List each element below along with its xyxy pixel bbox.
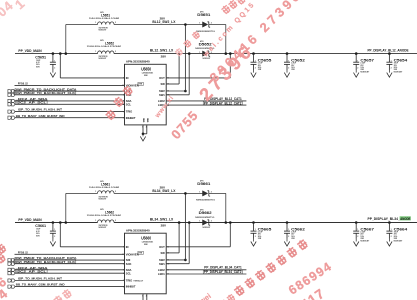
net I2C2_AP_SDA — [15, 100, 125, 102]
capacitor C5662 — [286, 221, 289, 224]
op-amp / driver IC U5660 — [125, 233, 167, 294]
svg-text:PP1V8_S2: PP1V8_S2 — [18, 82, 28, 86]
svg-text:LM3534TA1: LM3534TA1 — [142, 241, 153, 244]
svg-text:NOMOUNT: NOMOUNT — [99, 198, 107, 200]
svg-text:I2C2_AP_SCL: I2C2_AP_SCL — [16, 269, 46, 273]
net I2C2_AP_SCL — [15, 103, 125, 105]
svg-text:NSR0320MW2T1G: NSR0320MW2T1G — [195, 217, 214, 219]
ground under chip — [142, 125, 144, 134]
capacitor C5661 — [52, 221, 55, 224]
svg-text:1: 1 — [199, 23, 200, 25]
wire BL12_SW2_LX — [66, 24, 98, 26]
net PP1V8_S2 — [15, 84, 125, 86]
svg-text:NOMOUNT: NOMOUNT — [99, 58, 107, 60]
svg-text:15UH-20%-0.9A-0.575OHM: 15UH-20%-0.9A-0.575OHM — [87, 45, 121, 48]
wire SW2 riser — [166, 259, 185, 261]
wire to IN pin — [59, 221, 62, 224]
svg-text:L5661: L5661 — [101, 183, 110, 187]
svg-text:GND: GND — [147, 117, 149, 122]
svg-text:28V: 28V — [161, 54, 167, 58]
svg-text:NSR0320MW2T1G: NSR0320MW2T1G — [196, 200, 215, 202]
svg-text:2: 2 — [211, 221, 212, 223]
wire SW riser — [166, 83, 179, 85]
svg-text:2: 2 — [115, 220, 116, 222]
svg-text:SDA: SDA — [126, 268, 132, 272]
svg-text:NOMOUNT: NOMOUNT — [360, 71, 370, 73]
svg-text:SCL: SCL — [126, 102, 132, 106]
svg-text:U5650: U5650 — [141, 67, 152, 72]
capacitor C5664 — [388, 221, 391, 224]
svg-text:1: 1 — [391, 229, 392, 231]
svg-text:SCL: SCL — [126, 271, 132, 275]
svg-text:2: 2 — [357, 67, 358, 69]
svg-text:1: 1 — [95, 191, 96, 193]
diode D5662 — [203, 220, 208, 225]
svg-text:28V: 28V — [161, 223, 167, 227]
inductor L5662 — [98, 220, 115, 223]
svg-text:1: 1 — [95, 51, 96, 53]
net PP_DISPLAY_BL12_CAT2 — [166, 104, 246, 106]
wire SW1 riser — [166, 263, 189, 265]
diode D5661 — [203, 191, 208, 196]
op-amp / driver IC U5650 — [125, 64, 167, 125]
svg-text:DWI_PMGR_TO_BACKLIGHT_CLK: DWI_PMGR_TO_BACKLIGHT_CLK — [15, 91, 77, 95]
svg-text:NSR0320MW2T1G: NSR0320MW2T1G — [196, 31, 215, 33]
net DWI_PMGR_TO_BACKLIGHT_CLK — [15, 94, 125, 96]
svg-text:1: 1 — [199, 221, 200, 223]
net DWI_PMGR_TO_BACKLIGHT_DATA — [15, 259, 125, 261]
capacitor C5651 — [52, 52, 55, 55]
svg-text:IN: IN — [126, 76, 129, 80]
svg-text:ANODE: ANODE — [400, 217, 411, 221]
net DWI_PMGR_TO_BACKLIGHT_CLK — [15, 263, 125, 265]
svg-text:MWE: MWE — [144, 244, 148, 246]
svg-text:NOMOUNT: NOMOUNT — [360, 240, 370, 242]
svg-text:NOMOUNT: NOMOUNT — [394, 240, 404, 242]
svg-text:INHIBIT: INHIBIT — [126, 285, 136, 289]
svg-text:2: 2 — [115, 51, 116, 53]
svg-text:2: 2 — [288, 236, 289, 238]
svg-text:2: 2 — [255, 67, 256, 69]
ground under chip — [142, 294, 144, 300]
svg-text:C5661: C5661 — [35, 223, 47, 228]
svg-text:PP_DISPLAY_BL34_CAT1: PP_DISPLAY_BL34_CAT1 — [204, 266, 242, 270]
svg-text:1: 1 — [357, 229, 358, 231]
svg-text:APN:353S628940: APN:353S628940 — [126, 229, 150, 233]
svg-text:SW2: SW2 — [159, 258, 165, 262]
svg-text:LED1: LED1 — [158, 272, 165, 276]
svg-text:SDA: SDA — [126, 99, 132, 103]
svg-text:D5661: D5661 — [197, 182, 210, 186]
capacitor C5655 — [252, 52, 255, 55]
net I2C2_AP_SDA — [15, 269, 125, 271]
wire OUT to anode rail — [166, 246, 230, 248]
svg-text:D5662: D5662 — [199, 211, 212, 215]
svg-text:2: 2 — [357, 236, 358, 238]
svg-text:PP_DISPLAY_BL12_ANODE: PP_DISPLAY_BL12_ANODE — [368, 48, 410, 52]
inductor L5651 — [98, 22, 115, 25]
inductor L5652 — [98, 51, 115, 54]
wire PP_VDD_MAIN / BL34_SW1_LX / anode rail — [15, 222, 98, 224]
wire SW riser — [166, 252, 179, 254]
svg-text:DWI_PMGR_TO_BACKLIGHT_CLK: DWI_PMGR_TO_BACKLIGHT_CLK — [15, 260, 77, 264]
inductor L5661 — [98, 191, 115, 194]
wire OUT to anode rail — [166, 77, 230, 79]
capacitor C5667 — [355, 221, 358, 224]
svg-text:ISP_TO_MUON_FLASH_INT: ISP_TO_MUON_FLASH_INT — [18, 108, 62, 112]
svg-text:OUT: OUT — [159, 245, 165, 249]
capacitor C5652 — [286, 52, 289, 55]
svg-text:2: 2 — [146, 295, 147, 297]
svg-text:L5662: L5662 — [105, 210, 114, 214]
svg-text:2: 2 — [255, 236, 256, 238]
svg-text:L5651: L5651 — [101, 14, 110, 18]
svg-text:U5660: U5660 — [141, 236, 152, 241]
svg-text:SW1: SW1 — [159, 93, 165, 97]
svg-text:1UH-20%-2.8A-0.1OHM: 1UH-20%-2.8A-0.1OHM — [89, 17, 119, 20]
net BB_TO_MANY_GSM_BURST_IND — [15, 286, 125, 288]
svg-text:BL12_SW2_LX: BL12_SW2_LX — [152, 20, 176, 24]
svg-text:OUT: OUT — [159, 76, 165, 80]
wire PP_VDD_MAIN / BL12_SW1_LX / anode rail — [15, 53, 98, 55]
svg-text:1: 1 — [357, 60, 358, 62]
svg-text:SDI: SDI — [126, 258, 131, 262]
svg-text:1: 1 — [199, 192, 200, 194]
svg-text:SW1: SW1 — [159, 262, 165, 266]
net PP1V8_S2 — [15, 253, 125, 255]
net DWI_PMGR_TO_BACKLIGHT_DATA — [15, 90, 125, 92]
svg-text:IN: IN — [126, 245, 129, 249]
net BB_TO_MANY_GSM_BURST_IND — [15, 117, 125, 119]
capacitor C5654 — [388, 52, 391, 55]
net PP_DISPLAY_BL34_CAT1 — [166, 269, 246, 271]
svg-text:BL34_SW1_LX: BL34_SW1_LX — [150, 217, 174, 221]
svg-text:NOMOUNT: NOMOUNT — [203, 227, 211, 229]
svg-text:1: 1 — [95, 220, 96, 222]
svg-text:1: 1 — [255, 60, 256, 62]
svg-text:L5652: L5652 — [105, 41, 114, 45]
svg-text:1UH-20%-2.8A-0.1OHM: 1UH-20%-2.8A-0.1OHM — [89, 186, 119, 189]
svg-text:2: 2 — [123, 78, 124, 80]
svg-text:BL34_SW2_LX: BL34_SW2_LX — [152, 189, 176, 193]
svg-text:PP_VDD_MAIN: PP_VDD_MAIN — [18, 218, 42, 222]
svg-text:NOMOUNT: NOMOUNT — [99, 227, 107, 229]
capacitor C5657 — [355, 52, 358, 55]
wire SW2 riser — [166, 90, 185, 92]
svg-text:D5651: D5651 — [197, 13, 210, 17]
svg-text:SW: SW — [160, 251, 165, 255]
net PP_DISPLAY_BL12_CAT1 — [166, 100, 246, 102]
svg-text:1: 1 — [255, 229, 256, 231]
svg-text:NOMOUNT: NOMOUNT — [99, 29, 107, 31]
svg-text:I2C2_AP_SCL: I2C2_AP_SCL — [16, 100, 46, 104]
svg-text:1: 1 — [288, 229, 289, 231]
svg-text:MWE: MWE — [144, 75, 148, 77]
svg-text:2: 2 — [54, 67, 55, 69]
svg-text:INHIBIT: INHIBIT — [126, 116, 136, 120]
svg-text:ISP_TO_MUON_FLASH_INT: ISP_TO_MUON_FLASH_INT — [18, 277, 62, 281]
svg-text:SW: SW — [160, 82, 165, 86]
svg-text:2: 2 — [391, 67, 392, 69]
svg-text:2: 2 — [123, 247, 124, 249]
net ISP_TO_MUON_FLASH_INT — [15, 280, 125, 282]
svg-text:SCK: SCK — [126, 262, 132, 266]
svg-text:2: 2 — [54, 236, 55, 238]
svg-text:2: 2 — [391, 236, 392, 238]
svg-text:TRIG: TRIG — [126, 110, 132, 114]
svg-text:BB_TO_MANY_GSM_BURST_IND: BB_TO_MANY_GSM_BURST_IND — [16, 114, 66, 118]
svg-text:1: 1 — [199, 52, 200, 54]
wire SW1 riser — [166, 94, 189, 96]
svg-text:GND: GND — [144, 117, 146, 122]
svg-text:TRIG: TRIG — [126, 279, 132, 283]
svg-text:2: 2 — [115, 22, 116, 24]
svg-text:2: 2 — [288, 67, 289, 69]
svg-text:PP_DISPLAY_BL34_: PP_DISPLAY_BL34_ — [368, 217, 400, 221]
svg-text:15UH-20%-0.9A-0.575OHM: 15UH-20%-0.9A-0.575OHM — [87, 214, 121, 217]
svg-text:APN:353S628940: APN:353S628940 — [126, 60, 150, 64]
svg-text:LM3534TA1: LM3534TA1 — [142, 72, 153, 75]
diode D5652 — [203, 51, 208, 56]
svg-text:1: 1 — [54, 229, 55, 231]
svg-text:1: 1 — [95, 22, 96, 24]
net ISP_TO_MUON_FLASH_INT — [15, 111, 125, 113]
svg-text:C5651: C5651 — [35, 54, 47, 59]
svg-text:BL12_SW1_LX: BL12_SW1_LX — [150, 48, 174, 52]
diode D5651 — [203, 22, 208, 27]
wire BL34_SW2_LX — [66, 192, 98, 194]
svg-text:SW2: SW2 — [159, 89, 165, 93]
svg-text:BB_TO_MANY_GSM_BURST_IND: BB_TO_MANY_GSM_BURST_IND — [16, 283, 66, 287]
net PP_DISPLAY_BL34_CAT2 — [166, 273, 246, 275]
svg-text:NOMOUNT: NOMOUNT — [394, 71, 404, 73]
svg-text:LED2: LED2 — [158, 268, 165, 272]
svg-text:PP1V8_S2: PP1V8_S2 — [18, 251, 28, 255]
svg-text:PP_VDD_MAIN: PP_VDD_MAIN — [18, 49, 42, 53]
svg-text:1: 1 — [391, 60, 392, 62]
svg-text:1: 1 — [54, 60, 55, 62]
svg-text:2: 2 — [115, 191, 116, 193]
svg-text:VIO/HVEN: VIO/HVEN — [126, 252, 139, 256]
svg-text:2: 2 — [146, 127, 147, 129]
net I2C2_AP_SCL — [15, 272, 125, 274]
capacitor C5665 — [252, 221, 255, 224]
svg-text:1: 1 — [288, 60, 289, 62]
wire to IN pin — [59, 52, 62, 55]
